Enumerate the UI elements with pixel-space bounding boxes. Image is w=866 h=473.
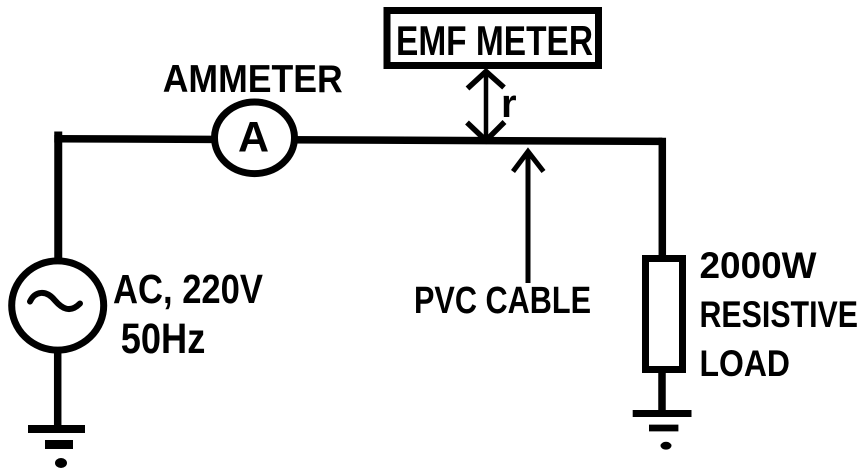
svg-text:LOAD: LOAD [700, 343, 791, 384]
PVC cable pointer arrow [513, 152, 544, 284]
dimension arrow r (EMF meter to cable) [467, 71, 505, 141]
label AC, 220V [113, 266, 264, 312]
svg-text:RESISTIVE: RESISTIVE [700, 294, 859, 335]
svg-text:A: A [238, 114, 269, 162]
svg-text:AMMETER: AMMETER [163, 58, 343, 101]
label PVC CABLE [414, 280, 591, 322]
EMF meter box U1 [387, 11, 599, 66]
wire: top horizontal run [54, 139, 662, 142]
ammeter A1 [215, 102, 295, 174]
AC source V1 [12, 261, 104, 350]
svg-text:PVC CABLE: PVC CABLE [414, 280, 591, 322]
resistor R1 (2000W load) [646, 259, 683, 370]
ground GND2 (right) [633, 414, 692, 450]
wire: AC source to ground [54, 351, 62, 429]
svg-text:EMF METER: EMF METER [396, 17, 593, 64]
label LOAD [700, 343, 791, 384]
svg-text:2000W: 2000W [700, 245, 817, 286]
wire: left riser (corner to AC source) [54, 132, 62, 262]
label RESISTIVE [700, 294, 859, 335]
svg-text:r: r [501, 82, 517, 126]
svg-text:AC, 220V: AC, 220V [113, 266, 264, 312]
label 2000W [700, 245, 817, 286]
ammeter label AMMETER [163, 58, 343, 101]
EMF meter label [396, 17, 593, 64]
label r [501, 82, 517, 126]
svg-text:50Hz: 50Hz [121, 316, 206, 363]
ground GND1 (left) [28, 429, 85, 468]
wire: right riser (corner to resistor) [659, 138, 667, 259]
wire: resistor to ground [658, 370, 666, 414]
label 50Hz [121, 316, 206, 363]
